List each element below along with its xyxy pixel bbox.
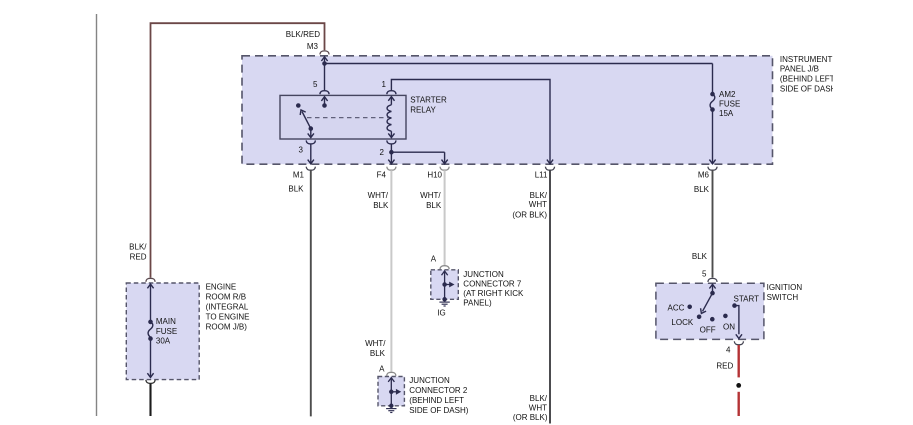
svg-text:(BEHIND LEFT: (BEHIND LEFT (780, 75, 835, 84)
svg-text:(BEHIND LEFT: (BEHIND LEFT (409, 396, 464, 405)
svg-text:M1: M1 (293, 170, 305, 179)
svg-text:TO ENGINE: TO ENGINE (206, 312, 250, 321)
svg-text:ON: ON (723, 322, 735, 331)
svg-text:FUSE: FUSE (719, 99, 740, 108)
svg-text:(OR BLK): (OR BLK) (513, 413, 548, 422)
svg-text:BLK/: BLK/ (530, 191, 548, 200)
svg-text:M6: M6 (698, 170, 710, 179)
svg-text:WHT/: WHT/ (368, 191, 389, 200)
svg-text:IG: IG (437, 308, 445, 317)
svg-text:WHT/: WHT/ (365, 339, 386, 348)
svg-text:SWITCH: SWITCH (767, 293, 799, 302)
svg-text:BLK/: BLK/ (530, 394, 548, 403)
svg-text:30A: 30A (156, 336, 171, 345)
svg-text:JUNCTION: JUNCTION (409, 376, 450, 385)
svg-text:PANEL J/B: PANEL J/B (780, 65, 819, 74)
svg-text:IGNITION: IGNITION (767, 283, 803, 292)
svg-text:M3: M3 (307, 42, 319, 51)
svg-text:4: 4 (726, 346, 731, 355)
svg-text:ROOM J/B): ROOM J/B) (206, 322, 248, 331)
svg-text:START: START (734, 295, 760, 304)
svg-text:(OR BLK): (OR BLK) (512, 211, 547, 220)
svg-text:BLK: BLK (426, 201, 442, 210)
svg-text:ENGINE: ENGINE (206, 282, 237, 291)
svg-text:RELAY: RELAY (410, 106, 436, 115)
svg-text:LOCK: LOCK (671, 318, 693, 327)
svg-text:BLK: BLK (692, 252, 708, 261)
svg-text:SIDE OF DASH): SIDE OF DASH) (409, 406, 468, 415)
svg-text:WHT/: WHT/ (420, 191, 441, 200)
svg-text:CONNECTOR 7: CONNECTOR 7 (463, 280, 522, 289)
svg-text:MAIN: MAIN (156, 317, 176, 326)
svg-text:STARTER: STARTER (410, 95, 447, 104)
svg-text:INSTRUMENT: INSTRUMENT (780, 55, 833, 64)
svg-text:RED: RED (130, 252, 147, 261)
svg-text:3: 3 (299, 145, 304, 154)
svg-text:BLK: BLK (370, 349, 386, 358)
svg-text:BLK: BLK (694, 185, 710, 194)
svg-text:AM2: AM2 (719, 90, 736, 99)
svg-text:JUNCTION: JUNCTION (463, 270, 504, 279)
svg-text:H10: H10 (427, 170, 442, 179)
svg-text:(AT RIGHT KICK: (AT RIGHT KICK (463, 289, 524, 298)
svg-text:F4: F4 (377, 170, 387, 179)
svg-text:BLK: BLK (373, 201, 389, 210)
svg-text:SIDE OF DASH): SIDE OF DASH) (780, 85, 839, 94)
svg-text:15A: 15A (719, 109, 734, 118)
svg-text:5: 5 (702, 270, 707, 279)
svg-text:ROOM R/B: ROOM R/B (206, 293, 246, 302)
svg-text:WHT: WHT (529, 200, 547, 209)
svg-text:RED: RED (716, 362, 733, 371)
svg-text:L11: L11 (535, 170, 548, 179)
svg-text:BLK/: BLK/ (129, 242, 147, 251)
svg-text:FUSE: FUSE (156, 327, 177, 336)
svg-text:5: 5 (313, 80, 318, 89)
svg-text:1: 1 (382, 80, 387, 89)
svg-text:2: 2 (380, 148, 385, 157)
svg-text:OFF: OFF (700, 326, 716, 335)
svg-text:A: A (431, 255, 437, 264)
svg-text:CONNECTOR 2: CONNECTOR 2 (409, 386, 468, 395)
svg-text:ACC: ACC (668, 303, 685, 312)
svg-text:BLK/RED: BLK/RED (286, 30, 320, 39)
svg-text:BLK: BLK (288, 184, 304, 193)
svg-text:WHT: WHT (529, 403, 547, 412)
svg-text:(INTEGRAL: (INTEGRAL (206, 303, 249, 312)
svg-text:PANEL): PANEL) (463, 299, 492, 308)
svg-text:A: A (379, 364, 385, 373)
